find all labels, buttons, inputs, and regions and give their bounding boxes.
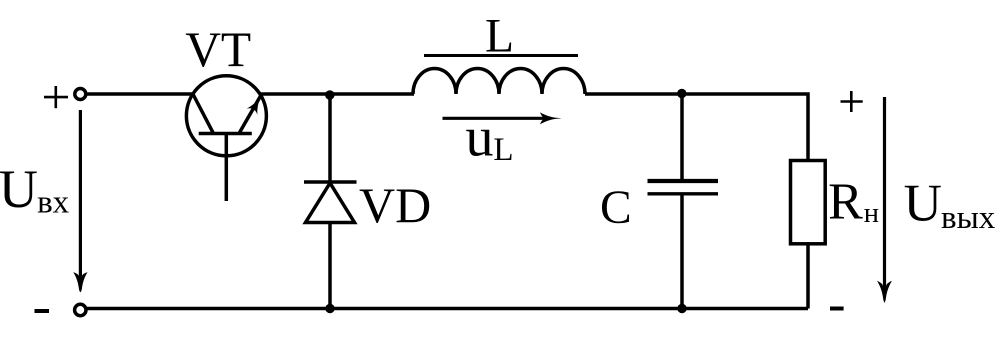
node B junction dot (capacitor top)	[677, 89, 686, 98]
capacitor C bottom plate	[648, 192, 719, 195]
arrow uL (inductor voltage, pointing right)	[443, 112, 562, 124]
svg-text:u: u	[466, 107, 494, 169]
svg-text:L: L	[493, 132, 513, 168]
wire: top rail, + terminal to transistor VT	[87, 92, 193, 96]
capacitor C lower lead (bottom plate to bottom rail)	[680, 196, 684, 309]
minus sign (input polarity)	[35, 309, 50, 313]
wire: bottom rail, - terminal to resistor branch	[87, 307, 808, 311]
svg-text:U: U	[0, 159, 38, 219]
transistor VT (symbol)	[186, 76, 266, 201]
svg-text:вых: вых	[941, 200, 996, 236]
plus sign (input polarity)	[44, 86, 68, 108]
wire: resistor Rn bottom lead to bottom rail	[806, 244, 810, 309]
capacitor C upper lead (node B to top plate)	[680, 94, 684, 179]
junction dot: diode bottom on bottom rail	[325, 304, 334, 313]
input terminal + (open circle, top left)	[75, 89, 86, 100]
arrow Uvyx (output voltage, pointing down)	[877, 97, 892, 303]
inductor L (four arcs)	[413, 69, 585, 95]
overline above label L	[424, 54, 578, 57]
diode VD cathode bar	[304, 180, 357, 184]
arrow Uvx (input voltage, pointing down)	[73, 110, 87, 292]
plus sign (output polarity)	[841, 91, 863, 112]
input terminal - (open circle, bottom left)	[75, 304, 86, 315]
svg-text:C: C	[600, 182, 632, 234]
wire: top rail, inductor L to node B then down to resistor Rn	[585, 94, 808, 161]
svg-text:VT: VT	[185, 22, 251, 77]
diode VD triangle	[306, 183, 355, 223]
junction dot: capacitor bottom on bottom rail	[677, 304, 686, 313]
svg-text:U: U	[904, 175, 942, 233]
wire: top rail, transistor VT to node A and inductor L	[260, 92, 414, 96]
transistor VT emitter arrowhead	[247, 97, 261, 115]
svg-text:вх: вх	[37, 185, 70, 221]
capacitor C top plate	[648, 179, 719, 183]
node A junction dot (switch node / diode top)	[325, 90, 334, 99]
minus sign (output polarity)	[830, 307, 844, 311]
wire: diode VD upper lead (node A down to cathode bar)	[328, 94, 332, 183]
svg-text:VD: VD	[359, 177, 431, 233]
wire: diode VD lower lead (anode down to bottom rail)	[328, 223, 332, 309]
svg-text:R: R	[828, 173, 863, 230]
svg-text:L: L	[485, 10, 514, 62]
resistor Rn (load, rectangle)	[791, 161, 826, 244]
svg-text:н: н	[864, 198, 879, 229]
